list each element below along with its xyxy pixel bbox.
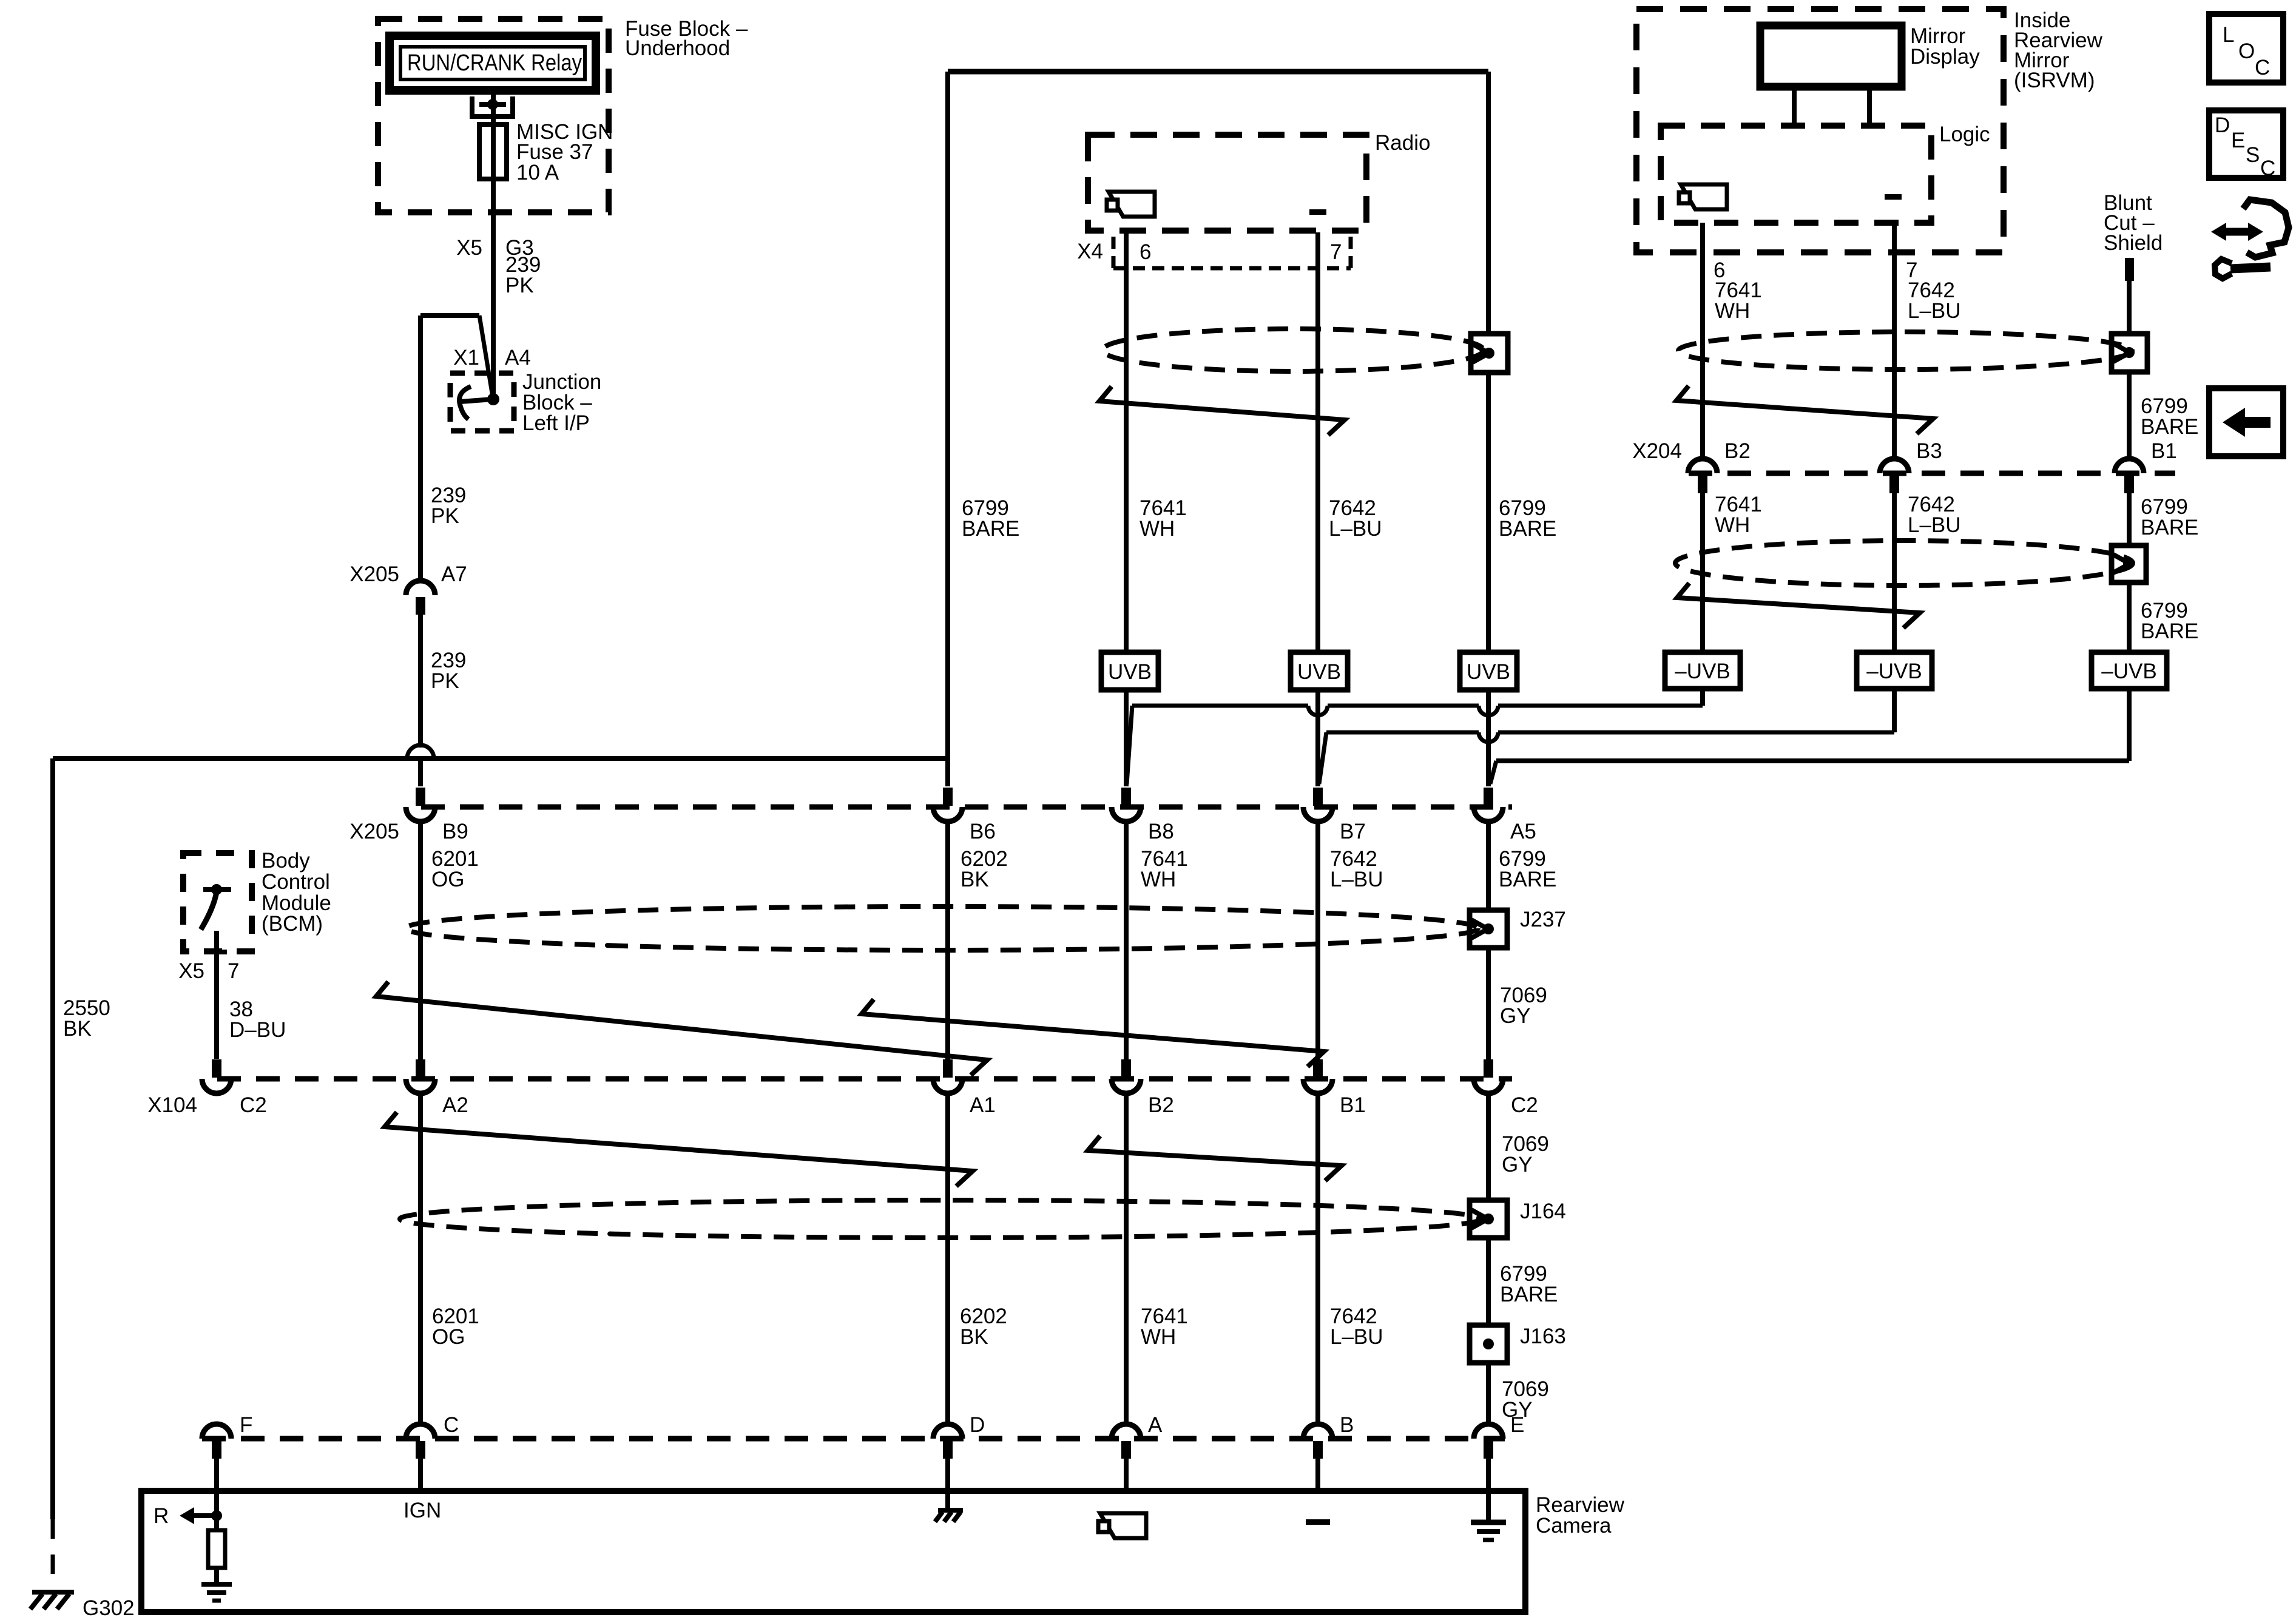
svg-text:D: D: [970, 1413, 985, 1437]
connector pin B7: [1303, 788, 1366, 843]
svg-text:Control: Control: [262, 870, 330, 894]
svg-text:Radio: Radio: [1375, 131, 1430, 155]
wire 7641 WH radio leg: [1124, 231, 1129, 652]
svg-text:WH: WH: [1715, 513, 1750, 537]
pin label X5 7: [178, 959, 239, 983]
svg-text:10 A: 10 A: [516, 161, 559, 184]
svg-text:X205: X205: [349, 562, 399, 586]
svg-text:B9: B9: [442, 820, 468, 843]
svg-text:6: 6: [1140, 240, 1151, 264]
svg-text:L: L: [2223, 23, 2234, 47]
net label box -UVB: [2092, 652, 2167, 689]
camera pin IGN: [403, 1499, 441, 1522]
connector row X104 (C2 A2 A1 B2 B1 C2): [217, 1076, 1512, 1082]
svg-text:WH: WH: [1715, 299, 1750, 323]
svg-text:B2: B2: [1724, 439, 1751, 463]
connector row X204 (B2 B3 B1): [1689, 471, 2175, 476]
svg-text:Underhood: Underhood: [625, 36, 730, 60]
svg-text:X205: X205: [349, 820, 399, 843]
connector pin C2: [202, 1059, 267, 1117]
svg-text:O: O: [2238, 39, 2255, 63]
svg-text:PK: PK: [505, 274, 534, 297]
wire 6201 OG segments: [420, 820, 479, 1059]
svg-text:A7: A7: [441, 562, 467, 586]
LOC legend box: [2209, 14, 2283, 83]
svg-text:BARE: BARE: [1500, 1283, 1558, 1306]
svg-text:–UVB: –UVB: [1866, 660, 1922, 683]
connector pin A: [1112, 1413, 1163, 1459]
DESC legend box: [2209, 110, 2283, 180]
wire crossover hop at main feed: [407, 745, 434, 786]
svg-text:–UVB: –UVB: [2101, 660, 2156, 683]
svg-text:GY: GY: [1500, 1004, 1531, 1028]
twisted leads mark: [862, 999, 1324, 1067]
connector pin F: [202, 1413, 252, 1459]
svg-text:D: D: [2215, 113, 2230, 137]
wire shield drain top bar: [948, 69, 1488, 75]
wire 7642 L-BU below X204: [1894, 493, 1961, 652]
mirror display box: [1760, 24, 1980, 87]
relay K RUN/CRANK Relay: [390, 36, 596, 90]
svg-text:L–BU: L–BU: [1329, 517, 1382, 541]
pin 6: [1140, 240, 1151, 264]
wire into camera IGN: [418, 1459, 423, 1491]
svg-text:B7: B7: [1340, 820, 1366, 843]
net label box -UVB: [1665, 652, 1740, 689]
back arrow box: [2209, 388, 2283, 456]
svg-text:C2: C2: [1511, 1093, 1538, 1117]
twisted pair loop radio: [1102, 329, 1484, 371]
pin label X5 G3: [456, 236, 534, 260]
svg-text:B1: B1: [2151, 439, 2177, 463]
twisted leads mark: [1088, 1136, 1342, 1181]
ground symbol camera internal: [201, 1584, 232, 1601]
connector pin B2: [1112, 1059, 1174, 1117]
svg-text:C2: C2: [240, 1093, 267, 1117]
svg-text:E: E: [2231, 129, 2245, 152]
repair tool icon: [2211, 200, 2289, 279]
wire 2550 BK to G302: [53, 758, 110, 1592]
svg-text:IGN: IGN: [403, 1499, 441, 1522]
wire 239 PK fuse to junction block: [491, 179, 496, 399]
svg-text:UVB: UVB: [1297, 660, 1341, 684]
connector pin B1: [1303, 1059, 1366, 1117]
wire mirror pin 7 7642 L-BU: [1894, 223, 1961, 459]
net label box -UVB: [1857, 652, 1932, 689]
camera video output icon: [1098, 1513, 1146, 1538]
svg-text:GY: GY: [1502, 1398, 1533, 1422]
rearview camera box: [141, 1491, 1625, 1612]
wire UVB bus 3: [1490, 689, 2129, 784]
svg-text:A2: A2: [442, 1093, 468, 1117]
svg-text:7: 7: [1330, 240, 1342, 264]
svg-text:J164: J164: [1520, 1200, 1566, 1223]
svg-text:PK: PK: [431, 669, 459, 693]
svg-text:Display: Display: [1910, 45, 1980, 69]
fuse block underhood box: [378, 17, 748, 212]
svg-text:S: S: [2246, 143, 2260, 167]
twisted leads mark: [376, 982, 987, 1075]
svg-text:B: B: [1340, 1413, 1354, 1437]
svg-text:R: R: [154, 1504, 169, 1528]
twisted pair loop BCM band: [405, 906, 1478, 950]
net label box UVB: [1101, 652, 1158, 690]
connector pin E: [1474, 1413, 1524, 1459]
wire shield drain 6799 BARE right leg: [1486, 72, 1491, 334]
minus terminal: [1309, 209, 1326, 215]
pin 7: [1330, 240, 1342, 264]
connector pin A1: [933, 1059, 996, 1117]
svg-text:L–BU: L–BU: [1908, 513, 1961, 537]
svg-text:B3: B3: [1916, 439, 1942, 463]
svg-text:BARE: BARE: [2141, 415, 2198, 439]
wire 6799 BARE: [2129, 372, 2198, 459]
wire mirror pin 6 7641 WH: [1703, 223, 1762, 459]
svg-text:GY: GY: [1502, 1153, 1533, 1176]
svg-text:WH: WH: [1141, 1325, 1176, 1349]
value label 239 PK: [505, 253, 541, 297]
splice J163: [1470, 1325, 1566, 1363]
camera chassis ground pin: [935, 1459, 963, 1522]
wire 6799 BARE below X204: [2129, 493, 2198, 545]
svg-text:L–BU: L–BU: [1908, 299, 1961, 323]
net label box UVB: [1460, 652, 1517, 690]
svg-text:BK: BK: [960, 1325, 988, 1349]
svg-text:BARE: BARE: [2141, 516, 2198, 539]
svg-text:B2: B2: [1148, 1093, 1174, 1117]
twisted leads mark: [385, 1112, 973, 1186]
svg-text:C: C: [444, 1413, 459, 1437]
logic box: [1661, 123, 1990, 223]
camera reverse input R with arrow: [154, 1459, 222, 1530]
splice J164: [1470, 1200, 1566, 1238]
svg-text:BK: BK: [961, 868, 989, 891]
svg-text:UVB: UVB: [1467, 660, 1510, 684]
connector pin B9: [406, 788, 468, 843]
wire 239 PK branch L-path: [420, 316, 493, 581]
twisted leads mark: [1676, 386, 1933, 434]
wire 7069 GY: [1488, 948, 1547, 1059]
svg-text:C: C: [2260, 157, 2275, 180]
wire 7642 L-BU radio leg: [1315, 232, 1320, 652]
svg-text:(ISRVM): (ISRVM): [2014, 69, 2095, 92]
wire relay to fuse: [491, 95, 496, 124]
wire 7641 WH below X204: [1703, 493, 1762, 652]
wire shield drain 6799 BARE left leg: [948, 72, 1019, 786]
junction block bus hook and node: [459, 387, 499, 419]
svg-text:B8: B8: [1148, 820, 1174, 843]
svg-text:X104: X104: [147, 1093, 197, 1117]
wire BCM output 38 D-BU: [206, 931, 227, 1059]
inside rearview mirror ISRVM box: [1636, 8, 2103, 252]
svg-text:B6: B6: [970, 820, 996, 843]
wire 239 PK to splice row: [420, 615, 466, 748]
pin label X1 A4: [453, 346, 531, 370]
svg-text:OG: OG: [432, 1325, 465, 1349]
twisted leads mark: [1099, 387, 1345, 435]
svg-text:D–BU: D–BU: [229, 1018, 286, 1042]
twisted leads mark: [1677, 583, 1920, 628]
connector pin B: [1303, 1413, 1354, 1459]
connector pin C: [406, 1413, 459, 1459]
svg-text:X5: X5: [178, 959, 204, 983]
value label 239 PK: [431, 484, 466, 528]
svg-text:BK: BK: [63, 1017, 92, 1041]
connector pin B6: [933, 788, 996, 843]
svg-text:X4: X4: [1077, 240, 1103, 263]
camera output icon: [1107, 192, 1155, 217]
svg-text:OG: OG: [431, 868, 464, 891]
svg-text:A5: A5: [1510, 820, 1536, 843]
camera earth ground pin: [1471, 1522, 1506, 1540]
svg-text:X204: X204: [1632, 439, 1682, 463]
ground G302: [30, 1592, 135, 1617]
connector pin D: [933, 1413, 985, 1459]
connector name X104: [147, 1093, 197, 1117]
splice shield connector: [1471, 334, 1508, 373]
camera output icon: [1679, 184, 1727, 209]
wire 6202 BK segments: [948, 820, 1008, 1059]
net label box UVB: [1291, 652, 1348, 690]
svg-text:L–BU: L–BU: [1330, 1325, 1383, 1349]
connector row rearview camera (F C D A B E): [202, 1436, 1505, 1442]
svg-text:A: A: [1148, 1413, 1163, 1437]
svg-text:UVB: UVB: [1108, 660, 1152, 684]
wire 6799 BARE: [1488, 1238, 1558, 1325]
connector pin A5: [1474, 788, 1536, 843]
svg-text:(BCM): (BCM): [262, 912, 323, 936]
svg-text:F: F: [240, 1413, 252, 1437]
svg-text:X5: X5: [456, 236, 482, 260]
svg-text:A4: A4: [505, 346, 531, 370]
radio box: [1088, 131, 1430, 231]
wire UVB bus 1: [1127, 689, 1703, 784]
junction block left I/P box: [450, 370, 601, 435]
fuse F37 MISC IGN Fuse 37 10 A: [479, 120, 613, 184]
relay output terminal bracket: [472, 96, 513, 116]
svg-text:J237: J237: [1520, 908, 1566, 931]
wire 6799 BARE to -UVB: [2129, 582, 2198, 652]
connector pin B2: [1688, 439, 1751, 493]
svg-text:J163: J163: [1520, 1325, 1566, 1348]
svg-text:–UVB: –UVB: [1675, 660, 1730, 683]
svg-text:Camera: Camera: [1536, 1514, 1612, 1538]
connector name X205: [349, 820, 399, 843]
connector row X205 (B9 B6 B8 B7 A5): [421, 805, 1512, 810]
splice shield connector: [2112, 545, 2146, 582]
svg-text:BARE: BARE: [1499, 868, 1556, 891]
svg-text:Body: Body: [262, 849, 310, 873]
connector pin A2: [406, 1059, 468, 1117]
svg-text:A1: A1: [970, 1093, 996, 1117]
svg-text:BARE: BARE: [962, 517, 1019, 541]
svg-text:WH: WH: [1140, 517, 1175, 541]
connector X205 A7: [349, 562, 467, 615]
svg-text:RUN/CRANK Relay: RUN/CRANK Relay: [407, 50, 582, 76]
connector name X204: [1632, 439, 1682, 463]
wire UVB bus 2: [1319, 689, 1894, 784]
svg-text:7: 7: [228, 959, 239, 983]
svg-text:Logic: Logic: [1939, 123, 1990, 146]
splice J237: [1470, 820, 1566, 948]
svg-text:L–BU: L–BU: [1330, 868, 1383, 891]
svg-text:WH: WH: [1141, 868, 1176, 891]
svg-text:Left I/P: Left I/P: [522, 411, 590, 435]
mirror display pedestal: [1794, 87, 1869, 126]
connector pin B8: [1112, 788, 1174, 843]
blunt cut shield lead: [2104, 191, 2163, 334]
connector pin C2: [1474, 1059, 1538, 1117]
minus terminal: [1885, 194, 1902, 200]
wire main feed horizontal: [53, 756, 948, 761]
svg-text:B1: B1: [1340, 1093, 1366, 1117]
connector X4 strip: [1077, 237, 1351, 268]
svg-text:G302: G302: [83, 1596, 135, 1617]
twisted pair loop mirror lower: [1675, 541, 2133, 586]
body control module BCM box: [183, 849, 331, 951]
svg-text:X1: X1: [453, 346, 479, 370]
svg-text:BARE: BARE: [2141, 619, 2198, 643]
svg-text:BARE: BARE: [1499, 517, 1556, 541]
svg-text:C: C: [2255, 56, 2270, 79]
connector pin B3: [1880, 439, 1942, 493]
twisted pair loop mirror upper: [1678, 332, 2132, 370]
connector pin B1: [2115, 439, 2177, 493]
wire 7069 GY to camera ground: [1488, 1363, 1549, 1424]
svg-text:PK: PK: [431, 504, 459, 528]
BCM switch contact: [201, 884, 231, 930]
splice shield connector: [2112, 334, 2147, 372]
svg-text:Shield: Shield: [2104, 231, 2163, 255]
value label 38 D-BU: [229, 998, 286, 1042]
resistor inside camera: [208, 1530, 225, 1584]
twisted pair loop J164 band: [400, 1200, 1481, 1238]
camera minus terminal: [1306, 1519, 1330, 1525]
